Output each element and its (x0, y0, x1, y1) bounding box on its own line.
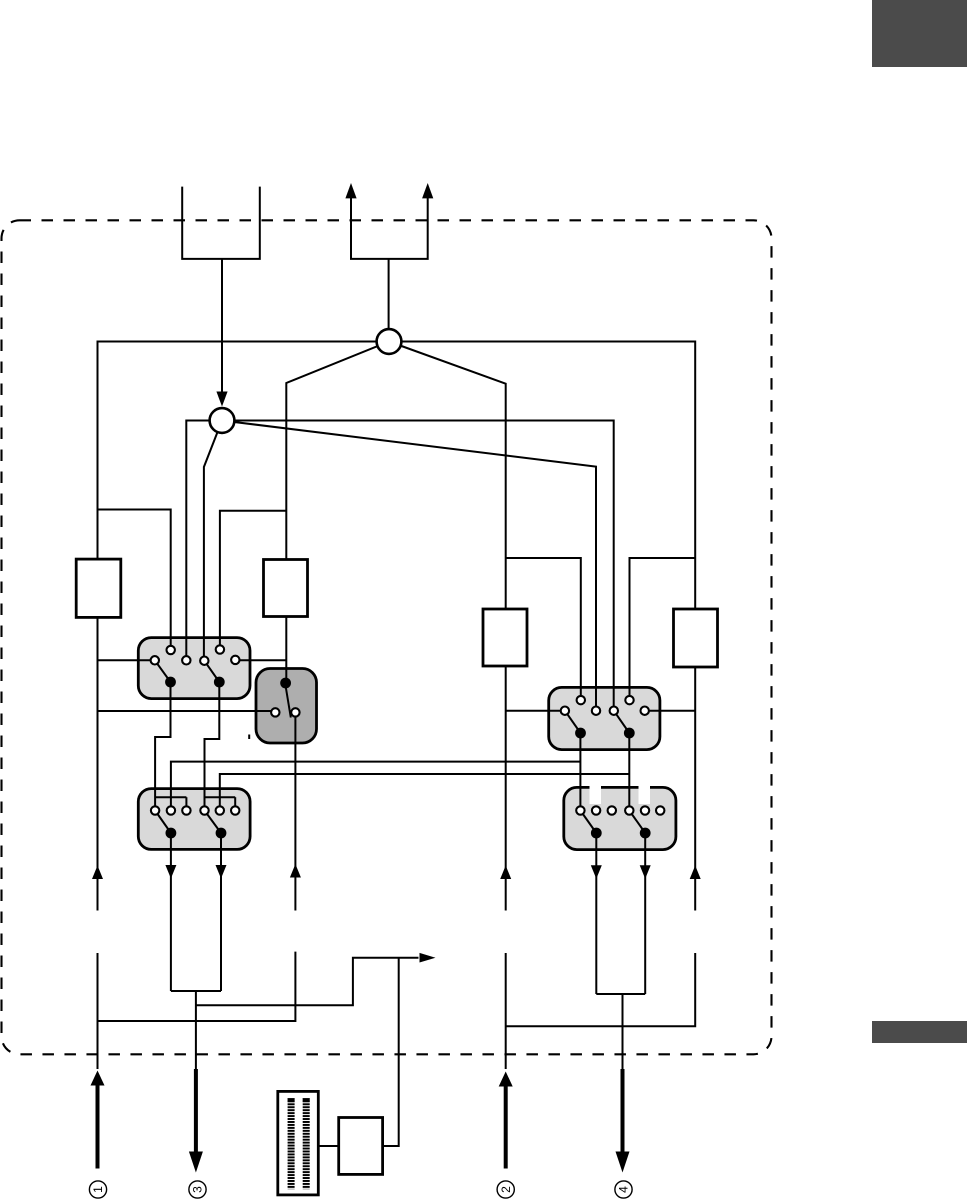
arrowhead P1 bus up (92, 866, 103, 880)
wire fork stem (388, 259, 390, 330)
arrowhead outlet left (345, 183, 356, 198)
lever S3 pole2 (205, 811, 222, 834)
mixer valve J1 (210, 408, 235, 433)
wire S3 drain right arm (220, 833, 222, 991)
contact S3 c5 (216, 806, 224, 814)
contact S1 top2 (216, 645, 224, 653)
switch block S1 body (138, 638, 250, 699)
notch slot S4 right (639, 781, 651, 805)
wire J2 to P2 riser (389, 342, 506, 911)
lever S4 pole1 (580, 811, 596, 834)
wire S1 mid4 to chamber A net (235, 659, 286, 661)
stub S3 c3 (185, 797, 187, 810)
wire J1 slant to S2 mid2 (222, 421, 596, 711)
connector comb body (278, 1091, 319, 1195)
inlet funnel (182, 187, 260, 259)
wire S3 drain left arm (170, 833, 172, 991)
switch block S2 body (549, 687, 660, 749)
wire row B (220, 774, 630, 811)
label port 1 (89, 1181, 106, 1198)
pole S3 p2 (216, 828, 227, 839)
bus bar S3 left (155, 796, 186, 798)
wire K1 right contact riser (294, 712, 296, 910)
lever S2 pole2 (614, 711, 630, 733)
wire K1 riser lower to P1 (98, 952, 296, 1021)
arrowhead S3 drain right down (216, 865, 227, 879)
arrowhead funnel stem (216, 392, 227, 407)
wire to S2 mid1 (506, 710, 565, 712)
wire S2 mid4 to right bus (645, 710, 696, 712)
wire S2 pole2 to S4 c4 (628, 733, 630, 811)
bus bar S3 right (205, 796, 236, 798)
pole S2 p1 (575, 728, 586, 739)
wire S4 drain left arm (595, 833, 597, 994)
wire P4 stem (622, 994, 624, 1069)
contact S2 mid4 (641, 707, 649, 715)
svg-text:2: 2 (499, 1186, 513, 1193)
lever S4 pole2 (629, 811, 645, 834)
lever S1 pole2 (204, 661, 219, 682)
svg-text:4: 4 (617, 1186, 631, 1193)
wire J2 to chamber A (286, 342, 389, 684)
pole S1 p1 (165, 677, 176, 688)
contact S4 c5 (641, 806, 649, 814)
wire P2 inner stem (505, 953, 507, 1069)
lever S1 pole1 (155, 660, 171, 682)
contact S4 c1 (576, 806, 584, 814)
wire main bus left (98, 342, 378, 911)
page header block (872, 0, 967, 67)
svg-text:1: 1 (91, 1186, 105, 1193)
connector comb strip right (303, 1098, 310, 1189)
contact S2 top1 (577, 696, 585, 704)
arrowhead right bus up (690, 866, 701, 880)
contact K1 left (271, 708, 279, 716)
contact S2 mid3 (610, 707, 618, 715)
contact S3 c4 (200, 806, 208, 814)
wire S4 drain manifold (596, 993, 645, 995)
wire P3 stem (195, 991, 197, 1069)
arrowhead S4 drain right down (640, 865, 651, 879)
port P2 arrow (499, 1072, 513, 1087)
page side tab (872, 1021, 967, 1043)
stub S3 c6 (234, 797, 236, 810)
contact S3 c2 (167, 806, 175, 814)
contact S3 c3 (182, 806, 190, 814)
contact S3 c6 (231, 806, 239, 814)
label port 4 (615, 1181, 632, 1198)
wire funnel stem (221, 259, 223, 393)
contact S1 mid4 (231, 656, 239, 664)
wire branch to S2 top-right (630, 558, 696, 700)
arrowhead P2 riser up (500, 866, 511, 880)
wire S2 pole1 to S4 c1 (579, 733, 581, 811)
wire J1 to S1 mid2 (186, 421, 222, 661)
lever K1 (286, 686, 291, 718)
wire S3 drain manifold (171, 990, 221, 992)
wire right bus lower to P2 (506, 953, 696, 1026)
connector comb strip left (288, 1098, 295, 1189)
dashed enclosure (2, 220, 772, 1054)
contact K1 right (291, 708, 299, 716)
wire to K1 left contact (98, 710, 276, 712)
wire row A (171, 762, 581, 811)
lever S2 pole1 (565, 711, 581, 733)
arrowhead S4 drain left down (591, 865, 602, 879)
port P4 arrow (621, 1069, 625, 1153)
wire to S1 mid1 (98, 659, 155, 661)
wire S1 pole1 jog to S3 c1 (155, 682, 170, 811)
contact S4 c6 (656, 806, 664, 814)
pole S2 p2 (624, 728, 635, 739)
notch slot S4 left (590, 781, 602, 805)
port P1 arrow (91, 1071, 105, 1086)
wire branch to S2 top-left (506, 558, 581, 700)
contact S2 top2 (625, 696, 633, 704)
wire branch to S1 top-left (98, 510, 171, 651)
switch block S4 body (564, 787, 676, 849)
outlet fork (351, 198, 428, 259)
wire comb to box (318, 1145, 338, 1147)
pole S4 p2 (640, 828, 651, 839)
contact S2 mid2 (592, 707, 600, 715)
contact S4 c2 (592, 806, 600, 814)
arrowhead outlet right (422, 183, 433, 198)
throttle block B (483, 609, 527, 666)
wire P1 inner stem (97, 953, 99, 1069)
contact S2 mid1 (561, 707, 569, 715)
port P3 arrow (194, 1069, 198, 1153)
lever S3 pole1 (155, 811, 171, 834)
leftover tick (248, 735, 250, 740)
wire S1 pole2 jog to S3 c4 (205, 682, 220, 811)
wire to pressure unit (383, 958, 399, 1146)
contact S1 top1 (167, 646, 175, 654)
wire indicator tap (196, 958, 419, 1006)
svg-text:3: 3 (191, 1186, 205, 1193)
wire J1 slant to S1 mid3 (204, 421, 222, 661)
throttle block A (264, 560, 308, 617)
pole S3 p1 (166, 828, 177, 839)
pressure unit box (339, 1118, 383, 1175)
contact S1 mid1 (151, 656, 159, 664)
arrowhead indicator right (420, 953, 436, 963)
contact S1 mid2 (182, 656, 190, 664)
distributor valve J2 (377, 329, 402, 354)
contact S3 c1 (151, 806, 159, 814)
contact S4 c4 (625, 806, 633, 814)
pole S4 p1 (591, 828, 602, 839)
wire S4 drain right arm (644, 833, 646, 994)
switch block S3 body (138, 789, 250, 850)
wire J1 to S2 mid3 (222, 421, 614, 711)
throttle block L (76, 559, 121, 617)
throttle block C (674, 609, 718, 667)
arrowhead S3 drain left down (165, 865, 176, 879)
relay block K1 body (256, 669, 317, 744)
arrowhead K1 riser up (290, 864, 301, 878)
pole S1 p2 (214, 677, 225, 688)
contact S4 c3 (608, 806, 616, 814)
wire main bus right (401, 342, 695, 911)
label port 3 (189, 1181, 206, 1198)
pole K1 (280, 678, 291, 689)
label port 2 (497, 1181, 514, 1198)
wire branch to S1 top-right (220, 511, 286, 650)
contact S1 mid3 (200, 657, 208, 665)
